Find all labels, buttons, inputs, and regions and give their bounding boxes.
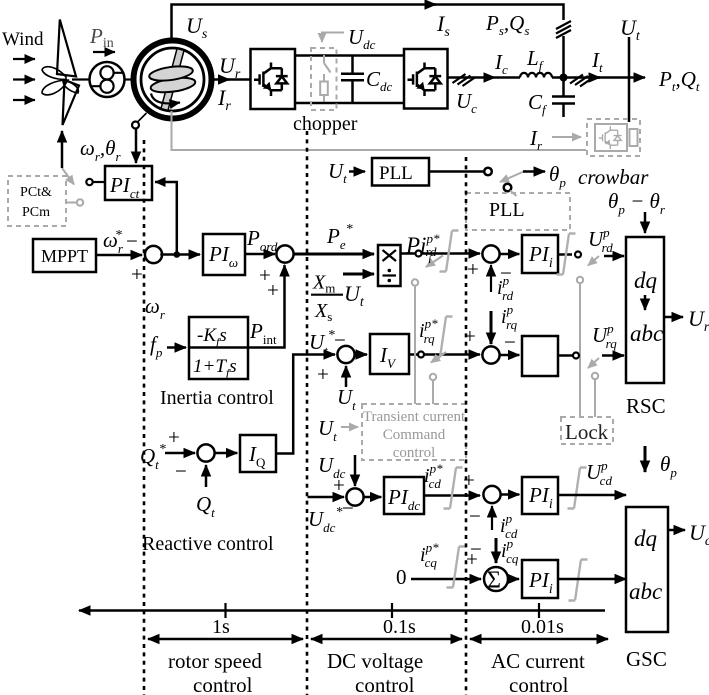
- svg-text:PLL: PLL: [489, 199, 525, 221]
- svg-text:−: −: [470, 537, 482, 561]
- svg-text:PLL: PLL: [379, 163, 413, 184]
- svg-text:Pip*rd: Pip*rd: [405, 231, 440, 259]
- svg-text:+: +: [267, 278, 279, 302]
- svg-text:+: +: [317, 362, 329, 386]
- svg-text:-Kfs: -Kfs: [197, 325, 227, 349]
- svg-text:−: −: [504, 330, 516, 354]
- svg-text:abc: abc: [630, 321, 663, 346]
- svg-text:0.1s: 0.1s: [383, 616, 416, 638]
- svg-text:−: −: [175, 459, 187, 483]
- svg-text:ip*cd: ip*cd: [424, 461, 443, 491]
- svg-text:DC voltage: DC voltage: [327, 649, 423, 673]
- svg-text:dq: dq: [634, 526, 657, 551]
- svg-text:+: +: [463, 468, 475, 492]
- svg-text:i: i: [428, 252, 431, 266]
- svg-text:+: +: [464, 324, 476, 348]
- svg-text:Pt,Qt: Pt,Qt: [658, 67, 700, 94]
- svg-text:RSC: RSC: [626, 394, 666, 418]
- svg-text:Command: Command: [383, 427, 446, 443]
- svg-text:control: control: [355, 673, 415, 695]
- svg-text:control: control: [193, 673, 253, 695]
- svg-text:GSC: GSC: [626, 647, 667, 671]
- svg-text:Uprd: Uprd: [588, 225, 613, 255]
- svg-text:−: −: [126, 229, 138, 253]
- svg-text:1s: 1s: [212, 616, 230, 638]
- svg-text:Reactive control: Reactive control: [142, 533, 274, 555]
- svg-text:θp − θr: θp − θr: [608, 189, 666, 217]
- svg-text:+: +: [131, 262, 143, 286]
- svg-text:Lock: Lock: [565, 420, 609, 444]
- svg-text:Uprq: Uprq: [592, 321, 617, 351]
- svg-text:Σ: Σ: [487, 568, 501, 594]
- svg-text:PCt&: PCt&: [20, 185, 52, 200]
- svg-text:crowbar: crowbar: [578, 165, 649, 189]
- svg-text:1+Tfs: 1+Tfs: [193, 356, 237, 380]
- svg-text:abc: abc: [629, 579, 662, 604]
- svg-text:−: −: [500, 261, 512, 285]
- svg-text:−: −: [469, 504, 481, 528]
- svg-text:Transient current: Transient current: [363, 409, 466, 425]
- svg-text:−: −: [334, 328, 346, 352]
- svg-text:rotor speed: rotor speed: [168, 649, 262, 673]
- svg-text:control: control: [509, 673, 569, 695]
- svg-text:ωr,θr: ωr,θr: [80, 136, 121, 164]
- svg-text:+: +: [467, 257, 479, 281]
- svg-text:+: +: [168, 425, 180, 449]
- svg-text:PCm: PCm: [22, 205, 50, 220]
- svg-text:MPPT: MPPT: [41, 246, 88, 266]
- svg-text:Wind: Wind: [2, 29, 44, 50]
- svg-text:+: +: [333, 473, 345, 497]
- svg-text:chopper: chopper: [293, 113, 358, 135]
- svg-text:ωr*: ωr*: [103, 228, 124, 256]
- svg-text:Inertia control: Inertia control: [160, 387, 274, 409]
- svg-text:dq: dq: [634, 268, 657, 293]
- svg-text:0.01s: 0.01s: [521, 616, 564, 638]
- svg-text:Ps,Qs: Ps,Qs: [485, 11, 529, 38]
- svg-text:ip*cq: ip*cq: [420, 540, 439, 570]
- svg-text:0: 0: [396, 565, 407, 589]
- svg-text:−: −: [342, 496, 354, 520]
- svg-text:AC current: AC current: [491, 649, 585, 673]
- svg-text:control: control: [393, 445, 436, 461]
